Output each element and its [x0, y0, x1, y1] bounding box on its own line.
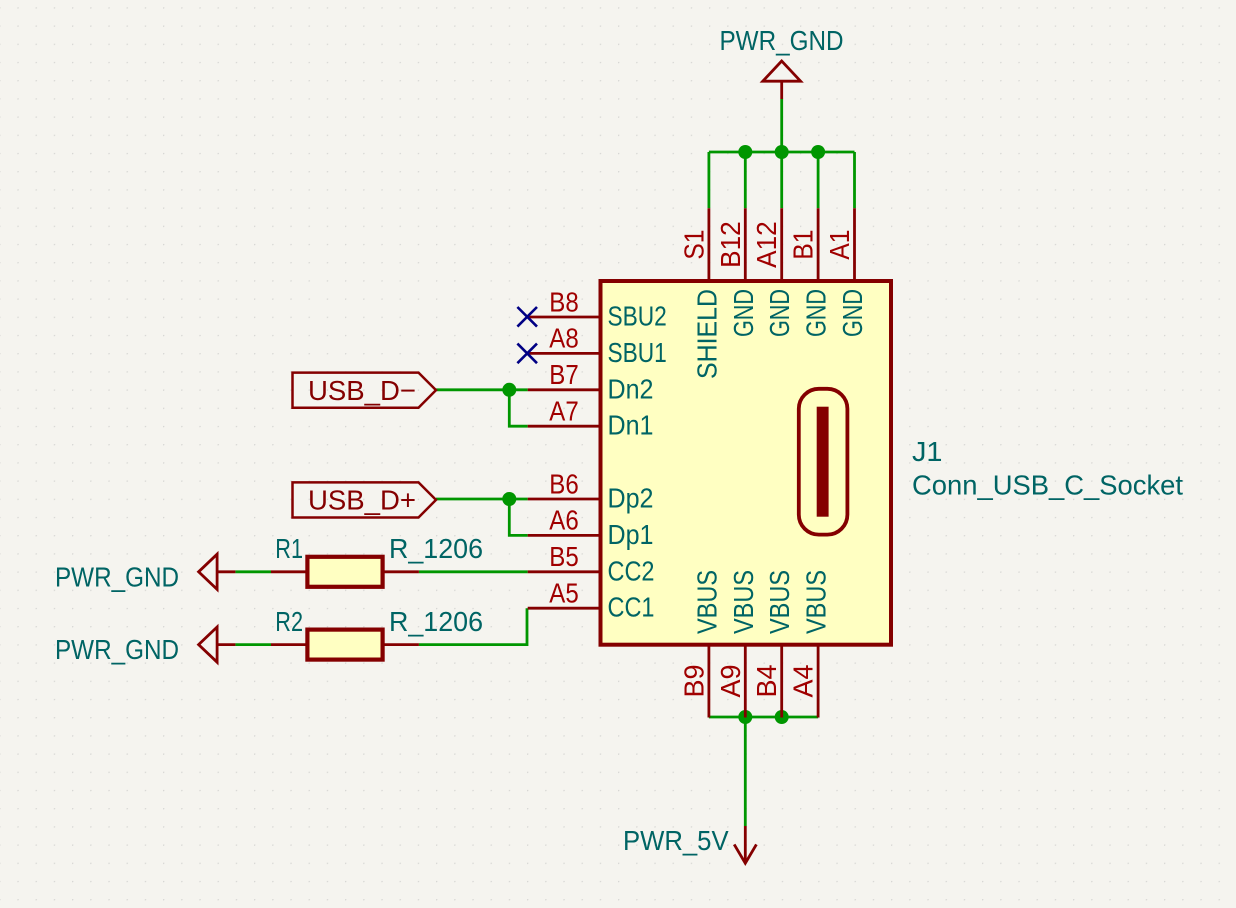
- svg-text:A8: A8: [549, 323, 578, 354]
- pin B9: [708, 645, 711, 718]
- connector J1 body: [601, 281, 892, 645]
- pin name GND (B12): [728, 289, 759, 337]
- pin number A6: [549, 505, 578, 536]
- pin number B8: [549, 286, 578, 317]
- pin S1: [708, 208, 711, 281]
- svg-text:R1: R1: [275, 533, 303, 564]
- global label USB_D+: [293, 482, 437, 517]
- svg-text:B6: B6: [549, 468, 578, 499]
- power label PWR_GND left 1: [55, 562, 179, 593]
- svg-text:GND: GND: [764, 289, 795, 337]
- svg-text:R_1206: R_1206: [389, 533, 483, 564]
- svg-text:Dn2: Dn2: [608, 373, 654, 404]
- pin A1: [853, 208, 856, 281]
- wire branch to pin A6: [509, 499, 527, 535]
- no-connect B8: [517, 307, 537, 327]
- pin B6: [528, 498, 601, 501]
- svg-text:VBUS: VBUS: [691, 570, 722, 634]
- junction at B1: [811, 145, 825, 159]
- svg-text:SBU2: SBU2: [608, 301, 667, 332]
- svg-text:GND: GND: [837, 289, 868, 337]
- svg-text:CC2: CC2: [608, 555, 655, 586]
- wire bus to pin S1: [708, 152, 711, 208]
- junction at B4: [775, 710, 789, 724]
- global label USB_D-: [293, 373, 437, 408]
- pin number A9: [715, 665, 746, 698]
- wire bus to pin B1: [817, 152, 820, 208]
- pin name SBU2: [608, 301, 667, 332]
- pin name GND (A12): [764, 289, 795, 337]
- pin number B5: [549, 541, 578, 572]
- pin name GND (A1): [837, 289, 868, 337]
- pin name Dn1: [608, 410, 654, 441]
- junction at B7 wire: [502, 383, 516, 397]
- pin number B7: [549, 359, 578, 390]
- pin A9: [744, 645, 747, 718]
- pin A4: [817, 645, 820, 718]
- wire branch to pin A7: [509, 390, 527, 426]
- reference R1: [275, 533, 303, 564]
- svg-text:R2: R2: [275, 606, 303, 637]
- power symbol PWR_GND left 2: [199, 627, 236, 662]
- pin name VBUS (B4): [764, 570, 795, 634]
- power label PWR_GND left 2: [55, 634, 179, 665]
- pin name Dp2: [608, 483, 654, 514]
- svg-text:B7: B7: [549, 359, 578, 390]
- svg-text:PWR_GND: PWR_GND: [55, 634, 179, 665]
- no-connect A8: [517, 344, 537, 364]
- svg-text:VBUS: VBUS: [801, 570, 832, 634]
- pin A8: [528, 352, 601, 355]
- svg-text:Dn1: Dn1: [608, 410, 654, 441]
- wire top horizontal bus: [709, 151, 855, 154]
- pin B7: [528, 388, 601, 391]
- power symbol PWR_5V: [734, 826, 756, 863]
- power label PWR_GND top: [720, 25, 844, 56]
- svg-text:GND: GND: [728, 289, 759, 337]
- pin name GND (B1): [801, 289, 832, 337]
- wire USB_D- to pin B7: [436, 388, 528, 391]
- wire PWR_GND to R2: [235, 643, 271, 646]
- svg-text:J1: J1: [912, 436, 943, 467]
- reference R2: [275, 606, 303, 637]
- pin B8: [528, 316, 601, 319]
- pin number A8: [549, 323, 578, 354]
- junction at A12: [775, 145, 789, 159]
- pin name SHIELD: [691, 289, 722, 379]
- pin name VBUS (A9): [728, 570, 759, 634]
- pin B5: [528, 570, 601, 573]
- pin name VBUS (B9): [691, 570, 722, 634]
- wire bottom horizontal bus: [709, 716, 818, 719]
- svg-text:B5: B5: [549, 541, 578, 572]
- svg-text:B8: B8: [549, 286, 578, 317]
- value R_1206 (R1): [389, 533, 483, 564]
- wire bus to pin A1: [853, 152, 856, 208]
- pin number S1: [678, 230, 709, 260]
- pin number B12: [715, 221, 746, 268]
- svg-text:R_1206: R_1206: [389, 606, 483, 637]
- pin name Dn2: [608, 373, 654, 404]
- junction at B12: [738, 145, 752, 159]
- svg-text:B4: B4: [751, 665, 782, 698]
- wire bus to pin B12: [744, 152, 747, 208]
- pin name CC2: [608, 555, 655, 586]
- pin name CC1: [608, 592, 655, 623]
- svg-text:A12: A12: [751, 221, 782, 268]
- pin name Dp1: [608, 519, 654, 550]
- junction at A9: [738, 710, 752, 724]
- pin A6: [528, 534, 601, 537]
- svg-text:Conn_USB_C_Socket: Conn_USB_C_Socket: [912, 470, 1183, 501]
- junction at B6 wire: [502, 492, 516, 506]
- svg-text:A7: A7: [549, 396, 578, 427]
- pin number A12: [751, 221, 782, 268]
- svg-text:S1: S1: [678, 230, 709, 260]
- svg-text:CC1: CC1: [608, 592, 655, 623]
- svg-text:B9: B9: [678, 665, 709, 698]
- wire bus to pin A12: [780, 152, 783, 208]
- svg-text:PWR_GND: PWR_GND: [720, 25, 844, 56]
- pin B12: [744, 208, 747, 281]
- pin number B9: [678, 665, 709, 698]
- wire R2 to pin A5: [419, 608, 527, 644]
- svg-text:A4: A4: [788, 665, 819, 698]
- svg-text:PWR_GND: PWR_GND: [55, 562, 179, 593]
- wire PWR_GND to R1: [235, 570, 271, 573]
- wire USB_D+ to pin B6: [436, 498, 528, 501]
- svg-text:B12: B12: [715, 221, 746, 268]
- wire bottom bus to PWR_5V: [744, 717, 747, 826]
- pin number A5: [549, 578, 578, 609]
- pin A7: [528, 425, 601, 428]
- svg-text:USB_D−: USB_D−: [308, 375, 416, 406]
- svg-text:PWR_5V: PWR_5V: [623, 825, 729, 856]
- USB-C receptacle glyph: [799, 389, 848, 535]
- svg-text:USB_D+: USB_D+: [308, 485, 416, 516]
- pin number A1: [824, 230, 855, 260]
- svg-text:A9: A9: [715, 665, 746, 698]
- pin A12: [780, 208, 783, 281]
- wire top power stub to bus: [780, 99, 783, 152]
- value Conn_USB_C_Socket: [912, 470, 1183, 501]
- svg-text:SHIELD: SHIELD: [691, 289, 722, 379]
- svg-text:VBUS: VBUS: [728, 570, 759, 634]
- power symbol PWR_GND top: [763, 61, 801, 99]
- wire R1 to pin B5: [419, 570, 528, 573]
- svg-text:B1: B1: [788, 230, 819, 260]
- power label PWR_5V: [623, 825, 729, 856]
- pin number B6: [549, 468, 578, 499]
- svg-text:Dp2: Dp2: [608, 483, 654, 514]
- pin number B4: [751, 665, 782, 698]
- pin number B1: [788, 230, 819, 260]
- pin number A4: [788, 665, 819, 698]
- reference J1: [912, 436, 943, 467]
- pin number A7: [549, 396, 578, 427]
- resistor R2: [271, 630, 419, 660]
- resistor R1: [271, 557, 419, 587]
- svg-text:A1: A1: [824, 230, 855, 260]
- svg-text:A5: A5: [549, 578, 578, 609]
- pin name SBU1: [608, 337, 667, 368]
- value R_1206 (R2): [389, 606, 483, 637]
- pin B4: [780, 645, 783, 718]
- pin name VBUS (A4): [801, 570, 832, 634]
- power symbol PWR_GND left 1: [199, 554, 236, 589]
- pin A5: [528, 607, 601, 610]
- svg-text:VBUS: VBUS: [764, 570, 795, 634]
- svg-text:GND: GND: [801, 289, 832, 337]
- svg-text:A6: A6: [549, 505, 578, 536]
- pin B1: [817, 208, 820, 281]
- svg-text:Dp1: Dp1: [608, 519, 654, 550]
- svg-text:SBU1: SBU1: [608, 337, 667, 368]
